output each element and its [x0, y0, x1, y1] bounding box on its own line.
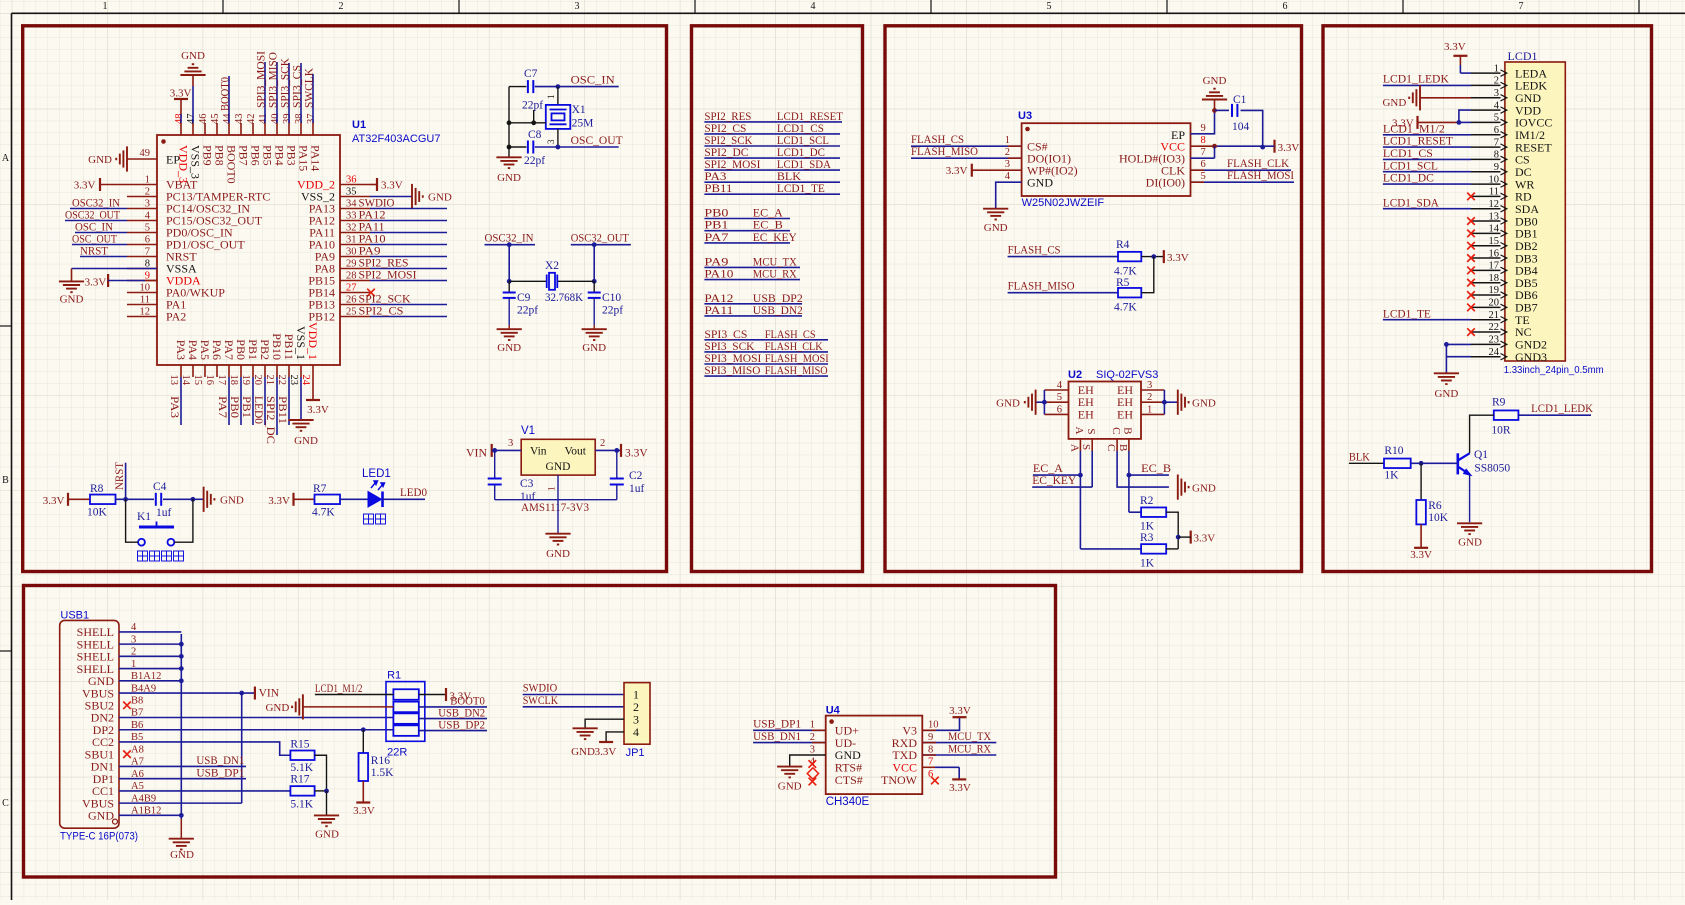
svg-text:U1: U1	[352, 119, 366, 131]
svg-text:C: C	[2, 798, 9, 809]
svg-text:4: 4	[1057, 380, 1063, 391]
capacitor C4	[156, 493, 161, 506]
svg-text:3.3V: 3.3V	[949, 782, 971, 794]
svg-text:VDD_3: VDD_3	[177, 145, 191, 183]
svg-text:GND: GND	[170, 849, 194, 861]
LCD1 pin 23	[1471, 343, 1501, 345]
wire U1 pin23 VSS_1 to ground	[300, 377, 302, 420]
net map SPI2_SCK to LCD1_SCL	[704, 145, 840, 147]
LCD1 pin 2	[1471, 84, 1501, 86]
power GND at U2 pin C	[1178, 475, 1189, 500]
wire U2 left pins bracket	[1043, 390, 1045, 414]
svg-text:GND: GND	[778, 781, 802, 793]
svg-text:7: 7	[1201, 147, 1206, 158]
svg-text:A: A	[1068, 444, 1080, 452]
svg-text:S: S	[1080, 444, 1092, 450]
svg-text:LCD1_SCL: LCD1_SCL	[1383, 160, 1438, 172]
net map SPI3_MISO to FLASH_MISO	[704, 375, 828, 377]
svg-text:B: B	[1122, 427, 1134, 434]
svg-text:FLASH_MOSI: FLASH_MOSI	[765, 353, 829, 365]
LCD1 pin 6	[1471, 134, 1501, 136]
LCD1 pin 16	[1471, 257, 1501, 259]
R1 element 4	[393, 725, 418, 736]
U1 pin 8 stub	[127, 268, 157, 270]
svg-text:GND: GND	[571, 746, 595, 758]
U1 pin 21 stub	[276, 365, 278, 377]
svg-text:GND: GND	[1203, 75, 1227, 87]
LCD1 pin 3	[1471, 97, 1501, 99]
svg-text:SPI3_MOSI: SPI3_MOSI	[255, 51, 267, 108]
power 3.3V at U3 pin8	[1273, 140, 1275, 153]
U1 pin 3 stub	[127, 208, 157, 210]
svg-text:1: 1	[1147, 404, 1152, 415]
power GND at U1 pin47	[180, 64, 205, 75]
LCD1 pin 1	[1471, 72, 1501, 74]
svg-text:1: 1	[1005, 135, 1010, 146]
LCD1 pin 9	[1471, 171, 1501, 173]
svg-text:R8: R8	[90, 483, 104, 495]
LED LED1	[368, 481, 385, 507]
net label NRST vertical	[125, 463, 127, 500]
svg-text:GND3: GND3	[1515, 350, 1547, 364]
net label SPI2_RES at U1 pin29	[370, 268, 447, 270]
U4 pin10 wire to 3.3V	[922, 717, 959, 730]
net map PA3 to BLK	[704, 181, 840, 183]
svg-text:21: 21	[264, 375, 275, 386]
U1 pin 15 stub	[204, 365, 206, 377]
U1 pin 5 stub	[127, 232, 157, 234]
svg-text:SWCLK: SWCLK	[303, 67, 315, 108]
LCD1 pin 12	[1471, 208, 1501, 210]
U1 pin 6 stub	[127, 244, 157, 246]
svg-text:PB7: PB7	[237, 145, 251, 166]
op U3 body	[1022, 123, 1191, 196]
svg-text:R17: R17	[290, 774, 309, 786]
svg-text:LCD1_DC: LCD1_DC	[1383, 173, 1434, 185]
U1 pin 25 stub	[340, 316, 370, 318]
svg-text:1.5K: 1.5K	[371, 767, 394, 779]
svg-text:LCD1_RESET: LCD1_RESET	[777, 111, 843, 123]
power 3.3V at U1 pin24 VDD_1	[312, 377, 314, 400]
U1 pin 29 stub	[340, 268, 370, 270]
net map SPI3_SCK to FLASH_CLK	[704, 351, 828, 353]
wire R7 to LED1	[340, 498, 368, 500]
U1 pin 46 stub	[204, 123, 206, 135]
net label FLASH_MOSI at U3 pin5	[1191, 181, 1295, 183]
svg-text:MCU_TX: MCU_TX	[948, 731, 992, 743]
svg-text:X2: X2	[545, 260, 559, 272]
svg-text:7: 7	[1494, 137, 1499, 148]
U1 pin 13 stub	[180, 365, 182, 377]
wire Q1 emitter to ground	[1469, 474, 1471, 522]
wire R8 to C4	[116, 498, 155, 500]
svg-text:16: 16	[1489, 248, 1500, 259]
svg-text:PB3: PB3	[285, 145, 299, 166]
svg-text:R6: R6	[1428, 500, 1442, 512]
svg-text:EC_KEY: EC_KEY	[1032, 475, 1077, 487]
resistor R6	[1420, 463, 1422, 500]
svg-text:K1: K1	[137, 511, 151, 523]
svg-text:1: 1	[810, 720, 815, 731]
svg-text:GND: GND	[181, 50, 205, 62]
svg-text:GND: GND	[315, 829, 339, 841]
svg-text:LCD1_SDA: LCD1_SDA	[1383, 197, 1440, 209]
svg-text:3: 3	[810, 744, 815, 755]
svg-text:8: 8	[928, 744, 933, 755]
svg-text:23: 23	[1489, 335, 1500, 346]
svg-text:C10: C10	[602, 292, 621, 304]
svg-text:PB0: PB0	[234, 339, 248, 360]
block border LCD section	[1323, 26, 1652, 572]
LCD1 pin 15	[1471, 245, 1501, 247]
net map PA11 to USB_DN2	[704, 315, 802, 317]
svg-text:12: 12	[1489, 199, 1500, 210]
svg-text:PA3: PA3	[174, 340, 188, 360]
no-connect LCD1 pins13-20	[1467, 217, 1475, 225]
U1 pin 12 stub	[127, 316, 157, 318]
LCD1 pin 18	[1471, 282, 1501, 284]
wire U2 pin B down	[1128, 451, 1130, 475]
svg-text:BLK: BLK	[1349, 451, 1371, 463]
svg-text:SS8050: SS8050	[1474, 463, 1510, 475]
wire K1 loop	[126, 499, 139, 542]
svg-text:PB1: PB1	[240, 396, 252, 418]
svg-text:LCD1_CS: LCD1_CS	[1383, 148, 1433, 160]
svg-text:4: 4	[633, 725, 639, 739]
crystal X1	[557, 87, 559, 105]
svg-text:LED0: LED0	[400, 487, 427, 499]
U1 pin 39 stub	[288, 123, 290, 135]
ruler ticks top	[222, 0, 224, 13]
svg-text:BOOT0: BOOT0	[225, 145, 239, 184]
svg-text:5: 5	[1494, 113, 1499, 124]
wire CC1 to R17	[119, 790, 290, 792]
power 3.3V at R6	[1420, 524, 1422, 547]
svg-text:LCD1_TE: LCD1_TE	[777, 183, 825, 195]
svg-text:SPI3_MISO: SPI3_MISO	[267, 52, 279, 108]
svg-text:GND: GND	[220, 495, 244, 507]
svg-text:B: B	[2, 475, 9, 486]
net label LED0	[383, 498, 426, 500]
U4 pin7 VCC wire to 3.3V	[922, 766, 935, 768]
U1 pin 48 stub	[180, 123, 182, 135]
svg-text:10R: 10R	[1491, 425, 1511, 437]
wire R2 right corner	[1166, 512, 1178, 549]
LCD1 pin 14	[1471, 232, 1501, 234]
svg-text:GND: GND	[1192, 482, 1216, 494]
svg-text:4.7K: 4.7K	[1114, 301, 1137, 313]
power GND at USB shell	[180, 819, 182, 839]
svg-text:BOOT0: BOOT0	[219, 77, 231, 111]
net map PA10 to MCU_RX	[704, 279, 800, 281]
svg-text:18: 18	[1489, 273, 1500, 284]
wire USB shell bus	[119, 631, 181, 633]
U3 pin4 ground wire	[996, 182, 1022, 209]
U1 pin 1 stub	[127, 184, 157, 186]
svg-text:EC_B: EC_B	[1141, 463, 1171, 475]
net label MCU_TX at U4 pin9	[922, 742, 996, 744]
power 3.3V at R2 R3	[1190, 531, 1192, 544]
net label BOOT0 wire at U1 pin44	[228, 76, 230, 123]
capacitor C2	[616, 450, 618, 478]
svg-text:24: 24	[1489, 347, 1500, 358]
svg-text:4.7K: 4.7K	[1114, 266, 1137, 278]
op U2 body	[1069, 382, 1142, 439]
svg-text:C: C	[1110, 427, 1122, 434]
svg-text:17: 17	[1489, 261, 1500, 272]
svg-text:10K: 10K	[87, 507, 108, 519]
V1 pin2 wire to 3.3V	[595, 449, 621, 451]
LCD1 pin 20	[1471, 306, 1501, 308]
net label PB0 at U1 pin18	[240, 377, 242, 425]
crystal X2	[509, 280, 546, 282]
net map SPI2_RES to LCD1_RESET	[704, 121, 842, 123]
wire V1 bottom rail	[495, 499, 617, 501]
power GND at U1 pin23	[288, 420, 313, 431]
svg-text:23: 23	[288, 375, 299, 386]
svg-text:22pf: 22pf	[602, 305, 623, 317]
svg-text:SPI2_SCK: SPI2_SCK	[704, 135, 753, 147]
net label PB1 at U1 pin19	[252, 377, 254, 425]
svg-text:R1: R1	[387, 670, 401, 682]
svg-text:5.1K: 5.1K	[290, 799, 313, 811]
svg-text:11: 11	[1489, 187, 1499, 198]
svg-text:38: 38	[294, 114, 305, 125]
svg-text:LCD1_CS: LCD1_CS	[777, 123, 824, 135]
U1 pin 37 stub	[312, 123, 314, 135]
svg-text:9: 9	[1201, 123, 1206, 134]
svg-text:3: 3	[575, 1, 580, 12]
power GND above C1	[1202, 89, 1227, 100]
svg-text:FLASH_CS: FLASH_CS	[765, 329, 816, 341]
svg-text:5.1K: 5.1K	[290, 762, 313, 774]
svg-text:10K: 10K	[1428, 512, 1449, 524]
svg-text:4.7K: 4.7K	[312, 507, 335, 519]
svg-text:PB6: PB6	[249, 145, 263, 166]
U1 pin 31 stub	[340, 244, 370, 246]
LCD1 pin 11	[1471, 195, 1501, 197]
wire X1 ground tap	[533, 110, 535, 123]
svg-text:USB_DN2: USB_DN2	[753, 305, 803, 317]
svg-text:Q1: Q1	[1474, 449, 1488, 461]
wire U2 pin C to ground	[1117, 451, 1169, 487]
svg-text:47: 47	[186, 114, 197, 125]
svg-text:EH: EH	[1117, 407, 1133, 421]
svg-text:TNOW: TNOW	[881, 773, 918, 787]
wire R17 right to ground	[315, 790, 327, 792]
svg-text:R15: R15	[290, 738, 309, 750]
net label SPI2_DC at U1 pin21	[276, 377, 278, 435]
svg-text:GND: GND	[88, 154, 112, 166]
svg-text:3.3V: 3.3V	[268, 495, 290, 507]
U1 pin 17 stub	[228, 365, 230, 377]
svg-text:PB5: PB5	[261, 145, 275, 166]
wire VSSA pin8 to ground	[72, 268, 158, 270]
svg-text:VSS_1: VSS_1	[294, 326, 308, 360]
svg-text:PA10: PA10	[359, 234, 386, 246]
svg-text:1K: 1K	[1140, 521, 1155, 533]
power GND right of U2	[1178, 390, 1189, 415]
no-connect at U1 pin27	[367, 289, 375, 297]
U1 pin 24 stub	[312, 365, 314, 377]
net map SPI3_CS to FLASH_CS	[704, 339, 828, 341]
wire U2 right pins bracket	[1163, 390, 1165, 414]
R1 element 2	[393, 702, 418, 713]
svg-text:1: 1	[145, 174, 150, 185]
svg-text:V1: V1	[521, 425, 535, 437]
svg-text:U3: U3	[1018, 110, 1032, 122]
net label PA12 at U1 pin33	[370, 220, 447, 222]
U1 pin 44 stub	[228, 123, 230, 135]
svg-text:FLASH_MOSI: FLASH_MOSI	[1227, 170, 1294, 182]
U1 pin 32 stub	[340, 232, 370, 234]
svg-text:PB1: PB1	[246, 339, 260, 360]
svg-text:2: 2	[339, 1, 344, 12]
svg-text:15: 15	[192, 375, 203, 386]
U1 pin 23 stub	[300, 365, 302, 377]
power GND at U4 pin3	[777, 767, 802, 778]
sheet border frame	[12, 12, 1685, 14]
svg-text:35: 35	[346, 186, 357, 197]
svg-text:1: 1	[547, 487, 557, 492]
svg-text:5: 5	[1057, 392, 1062, 403]
net label SPI3_MISO at U1 pin40	[276, 62, 278, 123]
svg-text:LCD1_SDA: LCD1_SDA	[777, 159, 832, 171]
power 3.3V at R4	[1163, 250, 1165, 263]
svg-text:FLASH_CS: FLASH_CS	[911, 134, 964, 146]
svg-text:PA4: PA4	[186, 340, 200, 360]
svg-text:27: 27	[346, 282, 357, 293]
V1 pin1 ground wire	[557, 475, 559, 500]
svg-text:36: 36	[346, 174, 357, 185]
no-ERC marker U4	[807, 768, 818, 779]
svg-text:R5: R5	[1116, 277, 1130, 289]
U1 pin 26 stub	[340, 304, 370, 306]
svg-text:SPI3_SCK: SPI3_SCK	[279, 57, 291, 108]
svg-text:9: 9	[928, 732, 933, 743]
net label PB11 at U1 pin22	[288, 377, 290, 425]
svg-text:3.3V: 3.3V	[307, 404, 329, 416]
U1 pin 22 stub	[288, 365, 290, 377]
svg-text:GND: GND	[546, 461, 571, 473]
svg-text:USB_DN2: USB_DN2	[438, 707, 485, 719]
capacitor C10	[593, 281, 595, 292]
net map PA12 to USB_DP2	[704, 303, 802, 305]
U1 pin 49 EP stub	[127, 158, 157, 160]
svg-text:GND: GND	[546, 548, 570, 560]
U1 pin 47 stub	[192, 123, 194, 135]
net map SPI2_DC to LCD1_DC	[704, 157, 840, 159]
svg-text:TYPE-C 16P(073): TYPE-C 16P(073)	[60, 831, 138, 843]
svg-text:PA7: PA7	[704, 232, 728, 244]
power GND at C10	[582, 329, 607, 340]
svg-text:PA15: PA15	[297, 145, 311, 171]
LCD1 pin 5	[1471, 121, 1501, 123]
net label SPI3_SCK at U1 pin39	[288, 63, 290, 123]
svg-text:SPI2_RES: SPI2_RES	[704, 111, 751, 123]
svg-text:1: 1	[1494, 63, 1499, 74]
svg-text:41: 41	[258, 114, 269, 125]
U4 pin3 ground wire	[790, 755, 826, 767]
svg-text:42: 42	[246, 114, 257, 125]
svg-text:W25N02JWZEIF: W25N02JWZEIF	[1022, 197, 1105, 209]
svg-text:48: 48	[174, 114, 185, 125]
svg-text:9: 9	[145, 270, 150, 281]
svg-text:LCD1_M1/2: LCD1_M1/2	[1383, 123, 1445, 135]
svg-text:3: 3	[1147, 380, 1152, 391]
svg-text:PB0: PB0	[228, 396, 240, 418]
svg-text:13: 13	[168, 375, 179, 386]
wire VBUS to VIN	[119, 692, 255, 694]
power 3.3V at JP1 pin4	[606, 732, 624, 742]
svg-text:PB11: PB11	[704, 183, 732, 195]
U1 pin 38 stub	[300, 123, 302, 135]
regulator V1 body	[521, 439, 595, 475]
net label USB_DP1 at USB	[119, 778, 246, 780]
svg-text:45: 45	[210, 114, 221, 125]
U1 pin 19 stub	[252, 365, 254, 377]
net map PB11 to LCD1_TE	[704, 193, 840, 195]
svg-text:PB11: PB11	[276, 396, 288, 424]
wire crystal left bus	[509, 86, 526, 88]
svg-text:8: 8	[1201, 135, 1206, 146]
op U1 body	[157, 135, 340, 365]
power VIN at USB	[254, 687, 256, 700]
net label PA7 at U1 pin17	[228, 377, 230, 425]
svg-text:3.3V: 3.3V	[1167, 252, 1189, 264]
svg-text:32: 32	[346, 222, 357, 233]
svg-text:GND: GND	[265, 702, 289, 714]
LCD1 pin 8	[1471, 158, 1501, 160]
svg-text:A: A	[1073, 427, 1085, 435]
svg-text:3: 3	[1494, 88, 1499, 99]
svg-text:MCU_RX: MCU_RX	[948, 743, 992, 755]
U1 pin 14 stub	[192, 365, 194, 377]
svg-text:PB1: PB1	[704, 220, 728, 232]
svg-text:Vout: Vout	[564, 446, 586, 458]
label K1 button chinese	[138, 551, 184, 561]
svg-text:PA9: PA9	[359, 246, 381, 258]
U1 pin 43 stub	[240, 123, 242, 135]
svg-text:GND: GND	[984, 222, 1008, 234]
svg-text:16: 16	[204, 375, 215, 386]
svg-text:C7: C7	[524, 68, 538, 80]
svg-text:1K: 1K	[1384, 469, 1399, 481]
power GND at LCD1 pin23-24	[1434, 373, 1459, 384]
connector USB1 body	[60, 620, 119, 828]
net label SPI3_MOSI at U1 pin41	[264, 62, 266, 123]
net label USB_DN2 at R1	[419, 718, 487, 720]
net label SPI2_MOSI at U1 pin28	[370, 280, 447, 282]
svg-text:15: 15	[1489, 236, 1500, 247]
svg-text:VIN: VIN	[259, 688, 280, 700]
svg-text:C8: C8	[528, 129, 542, 141]
svg-text:B: B	[1117, 444, 1129, 451]
U1 pin 35 stub	[340, 196, 370, 198]
LCD1 pin 19	[1471, 294, 1501, 296]
wire OSC32_IN down	[508, 245, 510, 282]
U1 pin 9 stub	[127, 280, 157, 282]
svg-text:14: 14	[1489, 224, 1500, 235]
svg-text:3: 3	[145, 198, 150, 209]
wire OSC32_OUT down	[593, 245, 595, 282]
power GND at C9	[497, 329, 522, 340]
svg-text:17: 17	[216, 375, 227, 386]
svg-text:LCD1_SCL: LCD1_SCL	[777, 135, 829, 147]
svg-text:33: 33	[346, 210, 357, 221]
wire OSC_IN	[535, 86, 619, 88]
svg-text:31: 31	[346, 234, 357, 245]
